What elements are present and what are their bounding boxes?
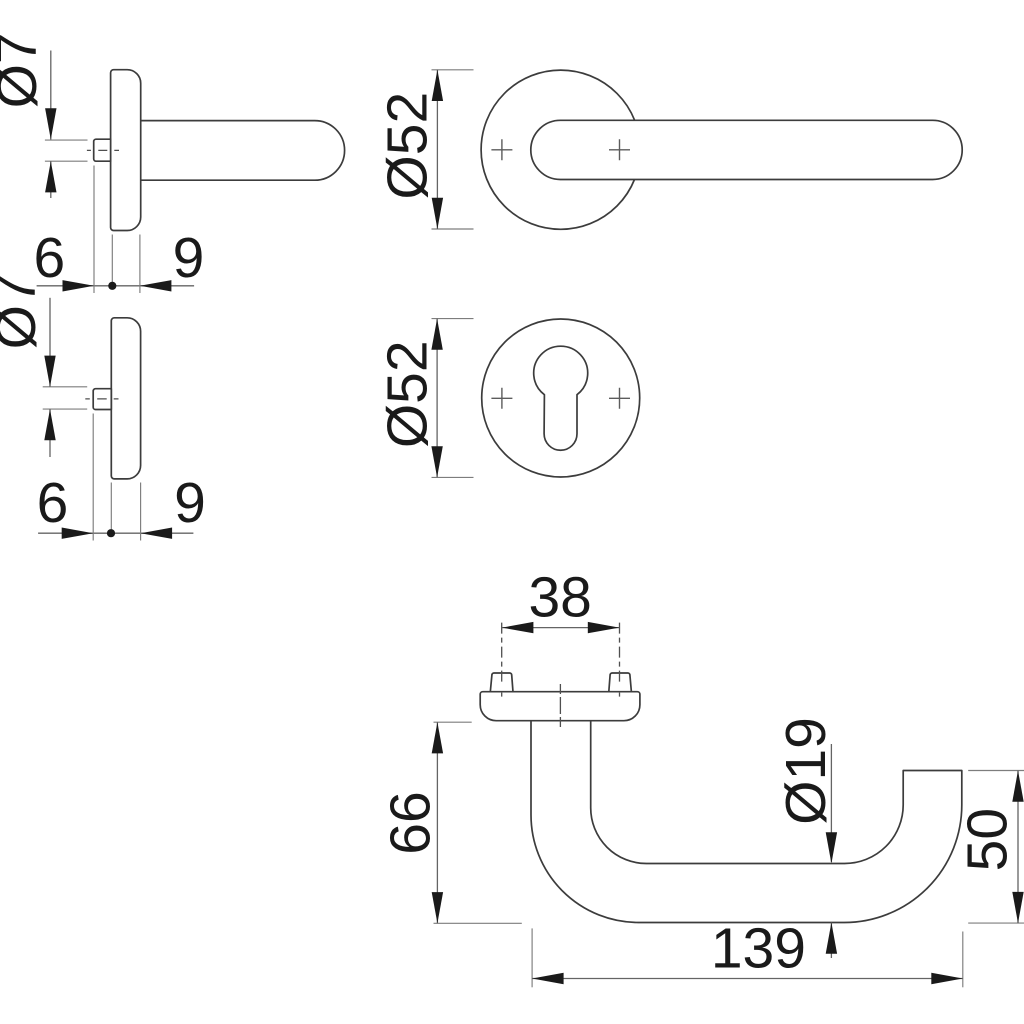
svg-text:9: 9: [174, 471, 206, 535]
screw cross right: [609, 388, 630, 409]
Ø19 arrow upper (points down): [826, 832, 837, 863]
Ø52 arrow bottom (points down): [431, 446, 442, 477]
extension line stub left: [92, 414, 94, 541]
view 2: key rosette side view: [0, 273, 206, 540]
Ø7 arrow lower (points up): [44, 409, 55, 440]
junction dot: [107, 529, 115, 537]
dimension 66 extension line bottom: [434, 922, 522, 924]
dimension 50 extension line top: [968, 770, 1024, 772]
junction dot: [108, 282, 116, 290]
arrow 9 (points left): [141, 528, 173, 539]
svg-text:Ø52: Ø52: [376, 92, 440, 200]
arrow 6 (points right): [62, 528, 93, 539]
dimension 6/9 line: [38, 532, 193, 534]
Ø7 arrow upper (points down): [45, 108, 56, 139]
extension line rosette right: [140, 483, 142, 541]
dimension Ø19 line lower: [830, 923, 832, 959]
extension line rosette left: [110, 483, 112, 534]
svg-text:Ø7: Ø7: [0, 32, 49, 108]
extension line rosette right: [139, 235, 141, 294]
svg-text:38: 38: [528, 566, 591, 630]
screw centerline left: [501, 623, 503, 700]
screw stub left: [490, 673, 513, 692]
dimension Ø7 extension line bottom: [45, 160, 88, 162]
dimension 139 line: [532, 978, 963, 980]
plate centerline: [559, 684, 561, 728]
svg-text:Ø52: Ø52: [376, 340, 440, 448]
66 arrow bottom (points down): [432, 892, 443, 923]
euro profile cylinder hole: [534, 346, 588, 450]
svg-text:Ø7: Ø7: [0, 273, 48, 349]
rosette body (side view): [111, 70, 141, 231]
dimension 38 line: [502, 627, 619, 629]
screw cross right: [609, 139, 630, 160]
dimension 66 extension line top: [434, 721, 472, 723]
dimension 6/9 line: [37, 285, 195, 287]
arrow 6 (points right): [63, 280, 95, 291]
lever handle (front view capsule): [531, 120, 962, 179]
dimension 50 line: [1017, 771, 1019, 924]
centerline through spindle: [87, 149, 119, 151]
view 4: key rosette front view: [376, 319, 640, 478]
dimension 139 extension line right: [962, 932, 964, 988]
139 arrow right (points right): [931, 973, 963, 984]
dimension Ø7 line upper segment: [50, 51, 52, 140]
mounting plate (rosette side view): [480, 692, 640, 721]
139 arrow left (points left): [532, 973, 564, 984]
dimension Ø19 line upper: [830, 744, 832, 862]
dimension Ø52 extension line top: [432, 69, 474, 71]
dimension Ø52 extension line bottom: [432, 476, 474, 478]
dimension Ø7 line lower segment: [49, 409, 51, 457]
screw stub right: [609, 673, 632, 692]
50 arrow bottom (points down): [1012, 892, 1023, 923]
rosette circle: [481, 70, 640, 229]
handle tube outline: [531, 721, 962, 923]
screw centerline right: [619, 623, 621, 700]
view 3: lever rosette front view: [376, 70, 963, 229]
rosette circle: [482, 319, 640, 477]
dimension Ø52 line: [436, 319, 438, 478]
rosette body (side view): [111, 318, 140, 479]
centerline through spindle: [85, 398, 118, 400]
svg-text:9: 9: [173, 226, 205, 290]
dimension Ø7 extension line bottom: [43, 408, 87, 410]
dimension 139 extension line left: [531, 928, 533, 987]
Ø52 arrow bottom (points down): [432, 198, 443, 229]
dimension Ø7 line lower segment: [50, 161, 52, 198]
dimension Ø7 extension line top: [43, 386, 87, 388]
Ø52 arrow top (points up): [431, 319, 442, 350]
Ø7 arrow lower (points up): [45, 161, 56, 192]
svg-text:Ø19: Ø19: [774, 717, 838, 825]
Ø7 arrow upper (points down): [44, 356, 55, 387]
svg-text:50: 50: [955, 808, 1019, 871]
dimension 66 line: [436, 722, 438, 923]
svg-text:66: 66: [379, 791, 443, 854]
dimension Ø52 extension line bottom: [432, 228, 474, 230]
dimension Ø7 line upper segment: [49, 298, 51, 387]
dimension 50 extension line bottom: [968, 922, 1024, 924]
50 arrow top (points up): [1012, 771, 1023, 802]
svg-text:139: 139: [711, 917, 806, 981]
handle bar (side view): [140, 121, 344, 181]
Ø19 arrow lower (points up): [826, 923, 837, 954]
view 5: lever handle profile view: [379, 566, 1024, 988]
dimension Ø52 extension line top: [432, 318, 474, 320]
extension line rosette left: [111, 235, 113, 286]
screw cross left: [491, 388, 512, 409]
38 arrow right (points right): [588, 622, 620, 633]
spindle stub (side view): [94, 139, 111, 161]
spindle stub (side view): [93, 389, 111, 410]
dimension Ø52 line: [436, 70, 438, 229]
66 arrow top (points up): [432, 722, 443, 753]
arrow 9 (points left): [140, 280, 172, 291]
38 arrow left (points left): [502, 622, 534, 633]
extension line stub left: [93, 166, 95, 294]
view 1: lever rosette side view: [0, 32, 345, 293]
dimension Ø7 extension line top: [45, 139, 88, 141]
screw cross left: [491, 139, 512, 160]
Ø52 arrow top (points up): [432, 70, 443, 101]
svg-text:6: 6: [37, 471, 69, 535]
